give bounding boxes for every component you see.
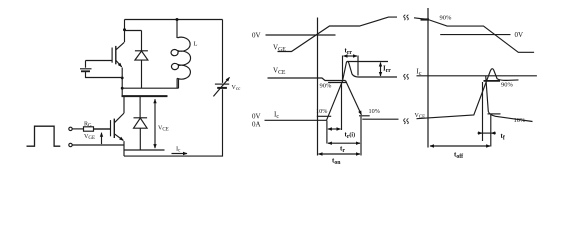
svg-text:trr: trr <box>345 47 353 57</box>
svg-text:10%: 10% <box>369 108 380 115</box>
svg-text:10%: 10% <box>514 117 527 124</box>
svg-text:RG: RG <box>84 122 92 129</box>
svg-text:0V: 0V <box>515 31 524 39</box>
svg-text:tr(i): tr(i) <box>345 131 356 141</box>
svg-text:Vcc: Vcc <box>232 85 242 92</box>
svg-text:L: L <box>194 41 198 48</box>
svg-text:90%: 90% <box>440 15 453 22</box>
svg-text:VGE: VGE <box>84 134 95 141</box>
svg-text:VGE: VGE <box>273 44 286 54</box>
svg-text:90%: 90% <box>320 83 333 90</box>
svg-text:VCE: VCE <box>273 67 286 77</box>
svg-text:0V: 0V <box>252 113 261 121</box>
svg-text:Ic: Ic <box>176 146 181 154</box>
svg-text:Ic: Ic <box>274 111 279 121</box>
svg-text:tf: tf <box>501 132 505 142</box>
svg-text:VCE: VCE <box>415 113 426 120</box>
svg-text:Irr: Irr <box>383 65 391 75</box>
svg-text:ton: ton <box>332 157 341 167</box>
svg-text:10%: 10% <box>316 108 327 115</box>
svg-text:tr: tr <box>340 145 345 155</box>
svg-text:0V: 0V <box>252 32 261 40</box>
svg-text:toff: toff <box>454 151 463 161</box>
svg-text:VCE: VCE <box>158 126 169 133</box>
svg-text:0A: 0A <box>252 121 261 129</box>
svg-text:90%: 90% <box>501 82 514 89</box>
